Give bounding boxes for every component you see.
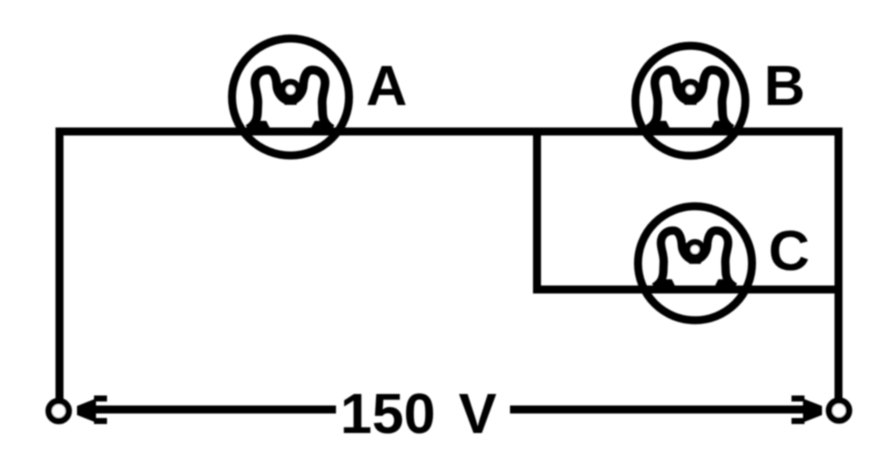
svg-text:V: V <box>459 382 497 446</box>
wire left vertical (source + to lamp A) <box>56 132 64 400</box>
arrow right (voltage span, points to right terminal) <box>510 396 822 425</box>
wire top horizontal (through lamps A and B) <box>56 128 843 136</box>
arrow left (voltage span, points to left terminal) <box>77 396 336 425</box>
lamp B <box>635 46 745 156</box>
node junction: parallel branch split <box>533 132 541 290</box>
lamp C <box>638 206 752 320</box>
svg-text:C: C <box>769 219 810 283</box>
lamp A <box>232 39 349 156</box>
wire lower branch horizontal (through lamp C) <box>533 286 839 294</box>
terminal left (source +) <box>49 401 69 421</box>
svg-text:A: A <box>366 54 407 118</box>
svg-text:B: B <box>764 54 805 118</box>
svg-text:150: 150 <box>340 382 435 446</box>
value label 150 V (source voltage) <box>340 382 496 446</box>
terminal right (source -) <box>829 401 849 421</box>
wire right vertical (lamp B branch to source -) <box>835 132 843 399</box>
